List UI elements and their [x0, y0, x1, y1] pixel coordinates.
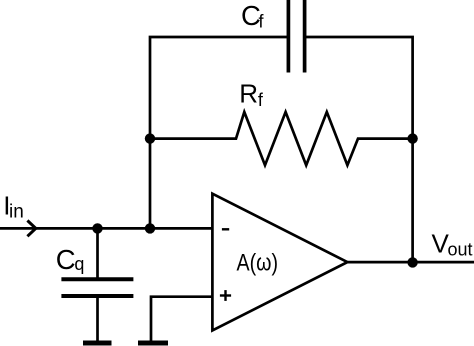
- svg-text:in: in: [9, 202, 24, 223]
- svg-text:R: R: [239, 79, 258, 109]
- svg-text:out: out: [448, 240, 473, 260]
- svg-text:q: q: [74, 254, 84, 274]
- svg-text:C: C: [56, 244, 76, 275]
- svg-text:A(ω): A(ω): [237, 250, 279, 277]
